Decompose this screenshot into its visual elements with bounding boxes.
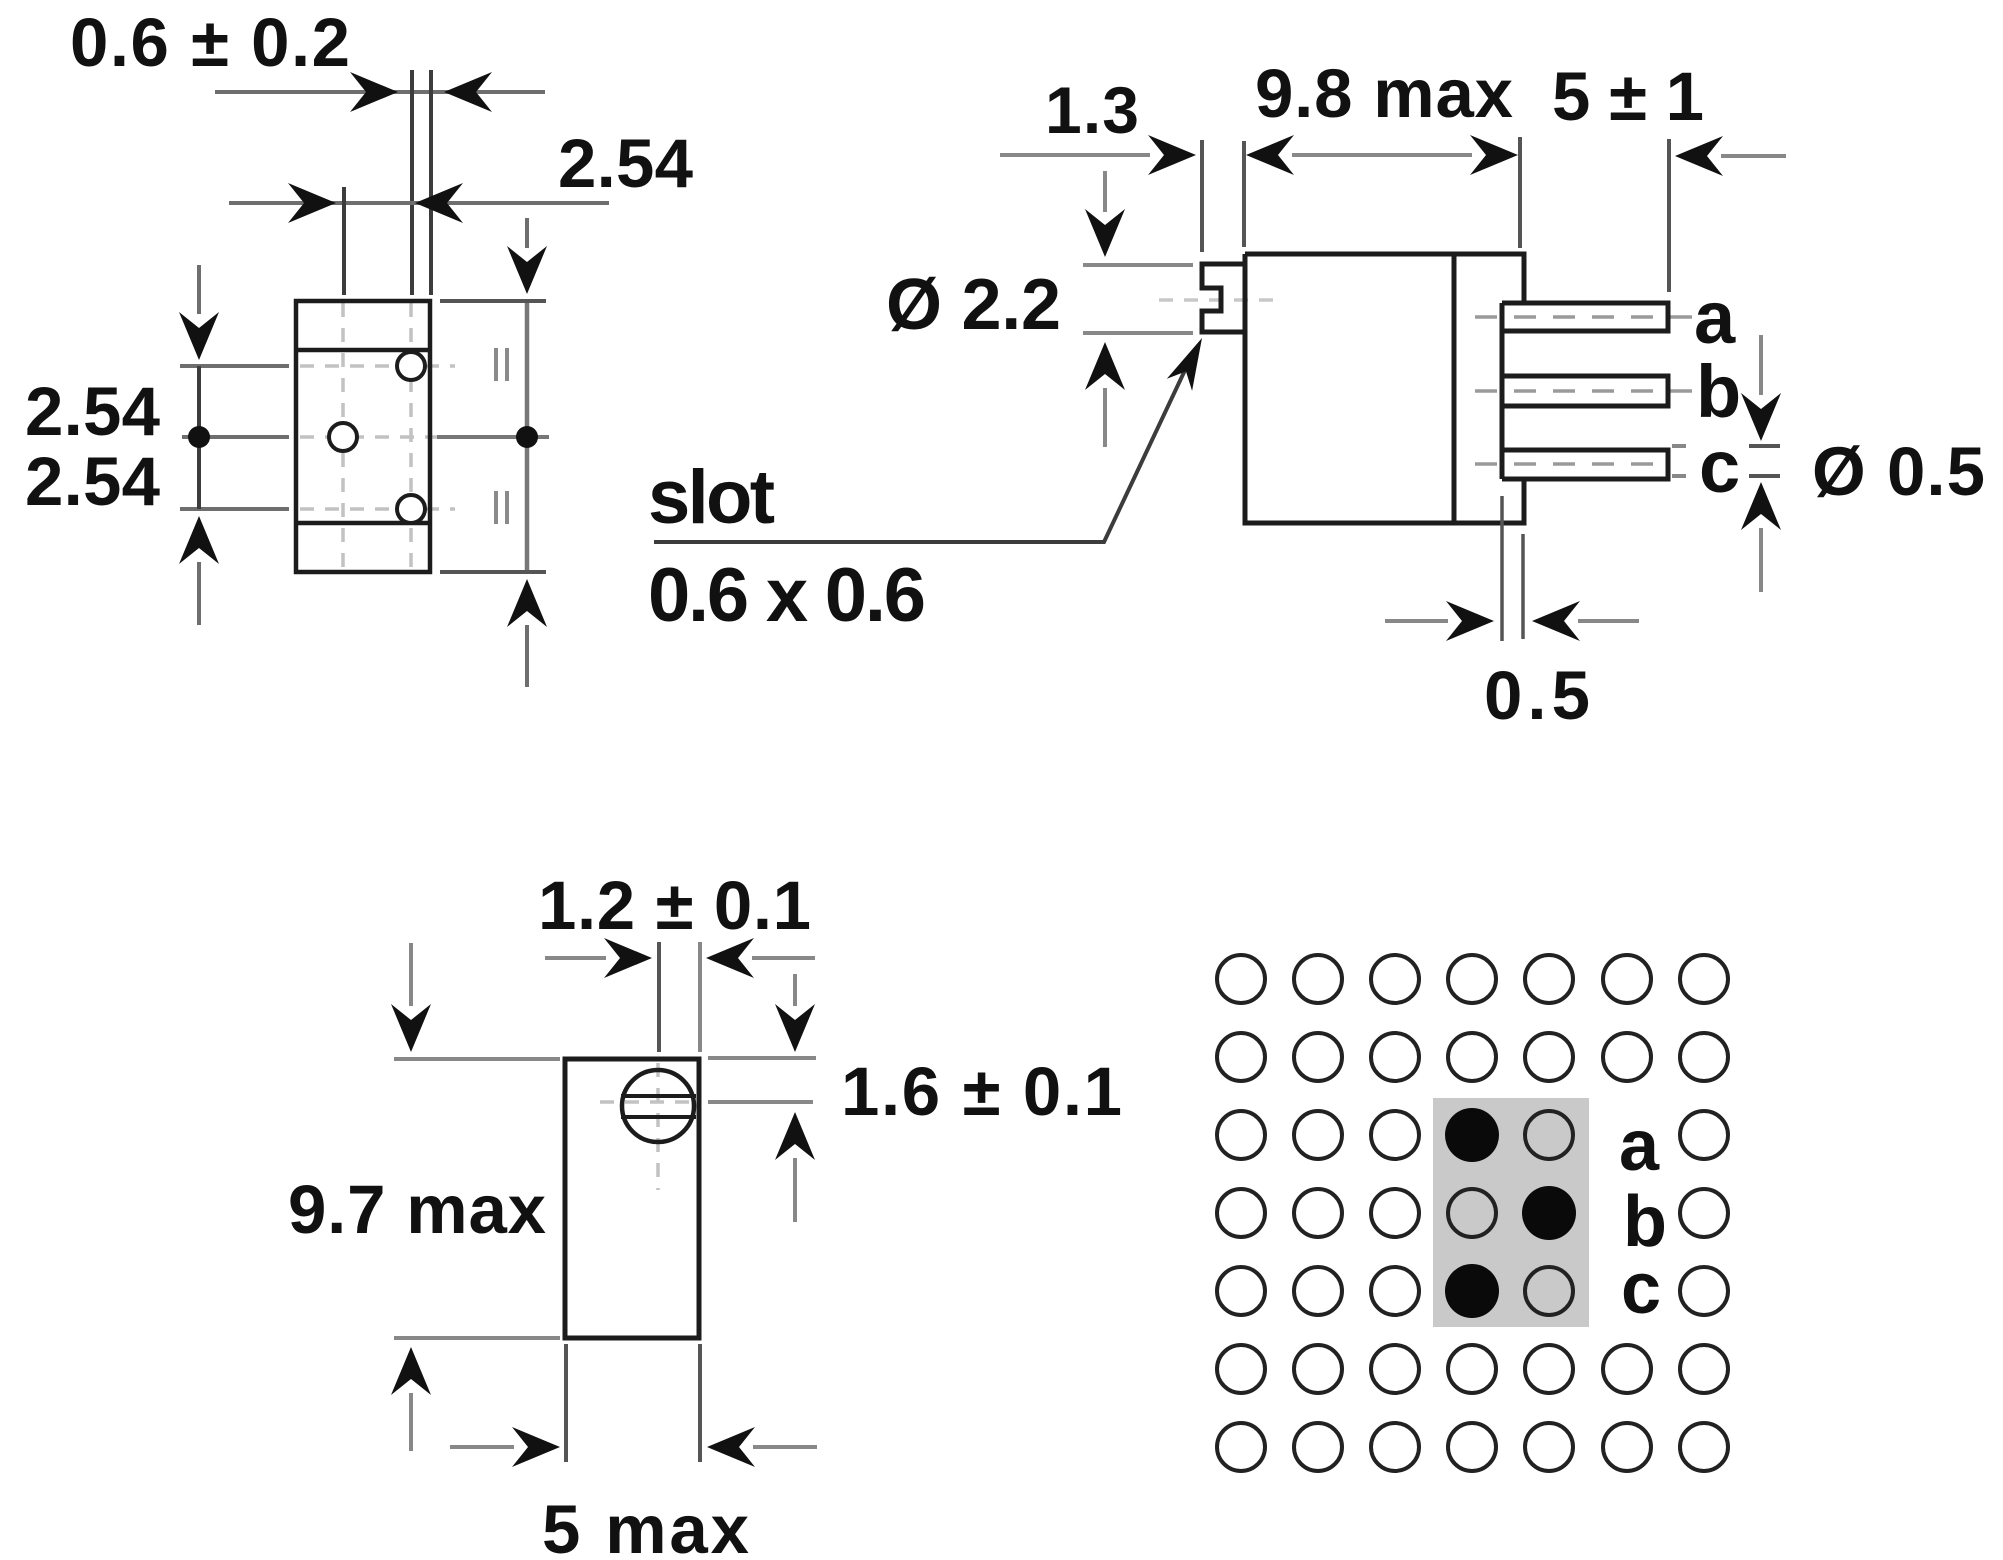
dimension line 1.2 right — [752, 956, 815, 960]
screw centerline dashed horizontal — [600, 1100, 700, 1104]
extension line hole row a — [180, 364, 289, 368]
svg-text:a: a — [1694, 276, 1736, 359]
extension line body right edge (0.6 dim) — [429, 70, 433, 295]
body top cap edge — [296, 348, 430, 353]
svg-text:a: a — [1619, 1106, 1660, 1186]
extension line body right lower (0.5 dim) — [1521, 534, 1525, 639]
svg-text:9.8 max: 9.8 max — [1255, 55, 1513, 132]
extension line right hole column (0.6 dim) — [410, 70, 414, 295]
right bottom extension line — [440, 570, 546, 574]
svg-text:2.54: 2.54 — [25, 443, 160, 520]
adjustment tab with slot — [1202, 264, 1245, 332]
up arrow to body bottom (left) — [409, 1393, 413, 1451]
filled pad b — [1522, 1186, 1576, 1240]
centerline dashed: hole row a — [300, 364, 455, 368]
dimension line 5±1 — [1721, 154, 1786, 158]
svg-text:5 max: 5 max — [542, 1491, 749, 1560]
svg-text:9.7 max: 9.7 max — [288, 1171, 546, 1248]
up arrow to tab bottom — [1103, 388, 1107, 447]
up arrow to bottom right line — [525, 625, 529, 687]
extension line body right top — [698, 942, 702, 1052]
hole bottom-right — [397, 495, 425, 523]
pin c — [1502, 450, 1668, 479]
centerline dashed: middle hole column — [341, 303, 345, 570]
svg-text:1.2 ± 0.1: 1.2 ± 0.1 — [538, 867, 811, 944]
right middle extension line (hole row b) — [437, 435, 549, 439]
extension line screw center — [657, 942, 661, 1052]
dimension line 1.2 left — [545, 956, 606, 960]
extension line body left — [1242, 141, 1246, 247]
svg-text:Ø 0.5: Ø 0.5 — [1812, 433, 1985, 510]
right top extension line — [440, 299, 546, 303]
extension line tab bottom — [1083, 331, 1193, 335]
equality marks lower — [496, 491, 507, 524]
pin a centerline dashed — [1475, 315, 1692, 319]
screw slot edges — [621, 1096, 696, 1117]
pin c diameter extension dashes — [1672, 446, 1686, 476]
dimension line 5 max left — [450, 1445, 514, 1449]
row 4 (b) open holes — [1217, 1189, 1265, 1237]
down arrow to top right line — [525, 218, 529, 248]
down arrow to tab top — [1103, 171, 1107, 212]
centerline dashed: right hole column — [409, 303, 413, 570]
extension line hole row b — [182, 435, 289, 439]
svg-text:c: c — [1699, 425, 1740, 508]
dimension line 2.54 horizontal — [229, 201, 609, 205]
centerline dashed: hole row b — [300, 435, 455, 439]
front view body rectangle — [296, 301, 430, 572]
up arrow to pin c bottom — [1759, 528, 1763, 592]
svg-text:2.54: 2.54 — [25, 373, 160, 450]
row 7 — [1217, 1423, 1265, 1471]
internal divider line — [1452, 254, 1457, 523]
row 3 (a) open holes — [1217, 1111, 1265, 1159]
hole grid — [1217, 955, 1728, 1471]
extension line pin ends — [1667, 139, 1671, 292]
left vertical dimension line with center dot — [197, 366, 201, 509]
extension line body left bottom (5 max) — [564, 1344, 568, 1462]
row 1 — [1217, 955, 1265, 1003]
pin b — [1502, 376, 1668, 406]
pin b centerline dashed — [1475, 389, 1692, 393]
up arrow to row c line — [197, 562, 201, 625]
dimension line 0.5 left part — [1385, 619, 1448, 623]
dimension line 0.5 right part — [1578, 619, 1639, 623]
svg-text:c: c — [1621, 1249, 1661, 1329]
svg-text:0.6 x 0.6: 0.6 x 0.6 — [648, 553, 926, 638]
extension line body right — [1518, 137, 1522, 248]
down arrow to body top (right, 1.6 dim) — [793, 974, 797, 1006]
svg-text:5 ± 1: 5 ± 1 — [1552, 58, 1704, 135]
screw center extension line right — [708, 1100, 813, 1104]
row 6 — [1217, 1345, 1265, 1393]
extension line body right bottom (5 max) — [698, 1344, 702, 1462]
up arrow to screw center line (1.6 dim) — [793, 1158, 797, 1222]
top extension line left — [394, 1057, 560, 1061]
svg-text:1.6 ± 0.1: 1.6 ± 0.1 — [841, 1053, 1122, 1130]
screw centerline dashed vertical — [656, 1063, 660, 1190]
filled pad c — [1445, 1264, 1499, 1318]
body bottom cap edge — [296, 521, 430, 526]
svg-text:0.6 ± 0.2: 0.6 ± 0.2 — [70, 4, 350, 81]
dimension line 9.8 max — [1292, 153, 1472, 157]
svg-text:2.54: 2.54 — [558, 125, 693, 202]
svg-text:slot: slot — [648, 455, 775, 540]
body rectangle — [565, 1059, 699, 1338]
svg-text:b: b — [1696, 350, 1741, 433]
hole top-right — [397, 352, 425, 380]
equality marks upper — [496, 348, 507, 381]
svg-text:1.3: 1.3 — [1045, 73, 1139, 147]
dimension line 5 max right — [753, 1445, 817, 1449]
right vertical dimension line with center dot — [525, 303, 530, 570]
top extension line right — [708, 1056, 816, 1060]
pins left edge — [1500, 303, 1505, 479]
extension line pin root (0.5 dim) — [1500, 496, 1504, 641]
body outline — [1202, 254, 1668, 523]
shaded mounting area — [1433, 1098, 1589, 1327]
screw head circle — [622, 1070, 694, 1142]
extension line tab left — [1200, 140, 1204, 252]
pin a — [1502, 303, 1668, 331]
dimension line 0.6±0.2 — [215, 90, 545, 94]
svg-text:Ø 2.2: Ø 2.2 — [886, 265, 1061, 345]
extension tick middle hole column — [342, 187, 346, 295]
pin c centerline dashed — [1475, 462, 1668, 466]
extension line tab top — [1083, 263, 1193, 267]
extension line hole row c — [180, 507, 289, 511]
dimension line 1.3 — [1000, 153, 1150, 157]
down arrow to row a line — [197, 265, 201, 314]
leader line from slot to tab — [654, 368, 1186, 542]
centerline dashed: hole row c — [300, 507, 455, 511]
down arrow to pin c top — [1759, 335, 1763, 395]
side view body outline — [1245, 254, 1524, 523]
hole middle-left — [329, 423, 357, 451]
row 5 (c) open holes — [1217, 1267, 1265, 1315]
down arrow to body top (left) — [409, 943, 413, 1006]
filled pad a — [1445, 1108, 1499, 1162]
svg-text:0.5: 0.5 — [1484, 657, 1590, 734]
tab centerline dashed — [1159, 298, 1274, 302]
bottom extension line left — [394, 1336, 560, 1340]
row 2 — [1217, 1033, 1265, 1081]
